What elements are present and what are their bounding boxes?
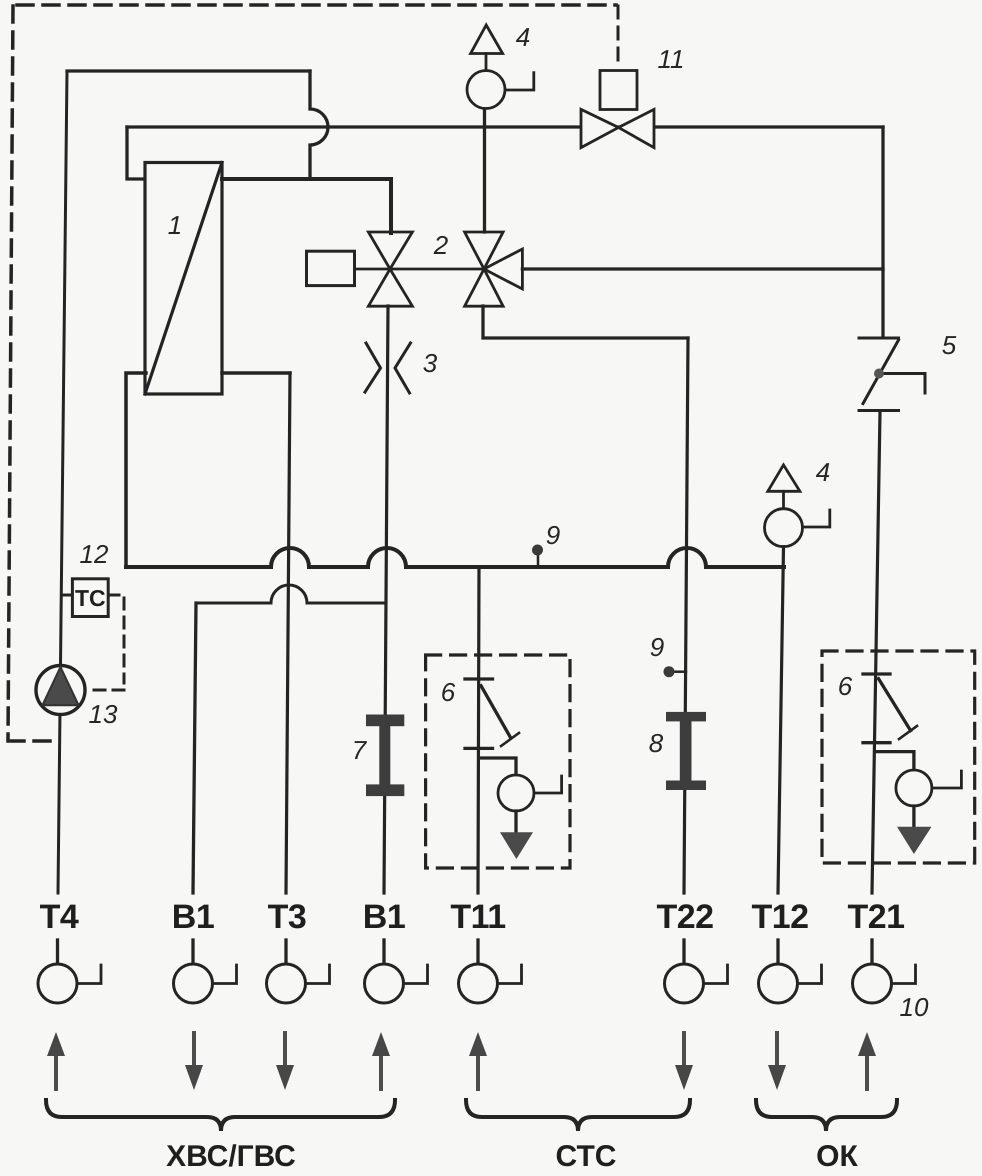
wire: T4 riser (left vertical) xyxy=(58,71,67,893)
wire: valve 2 bottom port to T22 xyxy=(483,306,688,338)
brace ОК xyxy=(756,1100,897,1131)
svg-text:Т4: Т4 xyxy=(40,898,79,936)
sampling valve unit 6 (right dashed box) xyxy=(822,651,975,863)
wire: actuator stem through valves y=269 xyxy=(355,268,485,271)
flow limiter 5 xyxy=(859,338,925,411)
wire: B1 downcomer xyxy=(193,603,196,893)
wire: valve 2 top port to gauge xyxy=(483,108,486,232)
safety valve 4 (top) xyxy=(467,25,534,109)
brace СТС xyxy=(466,1100,690,1131)
wire: T3 riser xyxy=(286,373,290,893)
svg-text:12: 12 xyxy=(80,539,109,569)
svg-text:9: 9 xyxy=(650,632,664,662)
wire: distribution manifold with crossover hops xyxy=(126,548,784,567)
svg-text:Т12: Т12 xyxy=(751,898,808,936)
svg-text:Т3: Т3 xyxy=(268,898,307,936)
flow arrow up (Т4) xyxy=(47,1032,65,1089)
connection point В1 xyxy=(172,898,237,1003)
svg-text:2: 2 xyxy=(433,230,449,260)
wire: cold water link y=603 with crossover hop xyxy=(196,585,386,603)
svg-text:ОК: ОК xyxy=(816,1140,858,1173)
wire: drop from header with crossover hop xyxy=(310,71,328,179)
wire: T22 downcomer xyxy=(684,338,688,893)
heat exchanger 1 xyxy=(145,163,222,395)
flow arrow down (В1) xyxy=(185,1033,203,1090)
svg-text:3: 3 xyxy=(423,348,438,378)
flow arrow up (Т11) xyxy=(469,1032,487,1089)
wire: header corner down to HX top-left port xyxy=(127,127,146,179)
wire: B1 riser through valve branch xyxy=(384,306,388,893)
svg-text:7: 7 xyxy=(352,735,368,765)
svg-text:ХВС/ГВС: ХВС/ГВС xyxy=(166,1140,296,1173)
svg-text:9: 9 xyxy=(546,520,560,550)
svg-text:Т22: Т22 xyxy=(656,898,713,936)
control valve (bowtie) xyxy=(368,232,412,306)
svg-text:13: 13 xyxy=(89,699,118,729)
connection point Т11 xyxy=(450,898,521,1003)
valve actuator box xyxy=(307,251,355,285)
orifice flange 8 xyxy=(666,712,706,790)
flow arrow down (Т22) xyxy=(675,1033,693,1090)
connection point Т12 xyxy=(751,898,821,1003)
dashed control line to valve 11 xyxy=(617,6,620,68)
connection point Т3 xyxy=(267,898,330,1003)
sensor tap 9 on T22 xyxy=(664,666,687,677)
svg-text:6: 6 xyxy=(838,671,853,701)
wire: T11 downcomer xyxy=(478,567,479,893)
wire: HX top-right port to control valve (y=179) xyxy=(222,179,391,233)
flow arrow down (Т12) xyxy=(768,1033,786,1090)
wire: top return header y=70 xyxy=(67,69,310,72)
connection point Т21 xyxy=(847,898,915,1003)
svg-text:Т21: Т21 xyxy=(847,898,904,936)
wire: right header drop xyxy=(881,127,884,337)
flow arrow up (В1 second) xyxy=(372,1032,390,1089)
svg-text:8: 8 xyxy=(649,728,664,758)
svg-text:4: 4 xyxy=(516,22,530,52)
connection point Т22 xyxy=(656,898,727,1003)
sampling valve unit 6 (left dashed box) xyxy=(426,655,570,868)
svg-text:ТС: ТС xyxy=(75,585,106,611)
svg-text:11: 11 xyxy=(658,44,685,74)
connection point В1 (second) xyxy=(363,898,428,1003)
brace ХВС/ГВС xyxy=(46,1100,395,1131)
flow arrow up (Т21) xyxy=(858,1032,876,1089)
svg-text:В1: В1 xyxy=(363,898,405,936)
wire: supply header y=127 xyxy=(127,125,883,128)
check valve 3 xyxy=(365,343,411,393)
svg-text:5: 5 xyxy=(942,330,957,360)
pump 13 xyxy=(36,666,85,715)
wire: T12 downcomer xyxy=(778,547,784,893)
sensor tap 9 on manifold xyxy=(532,545,543,567)
wire: T21 downcomer xyxy=(872,412,880,893)
wire: HX bottom-left port to manifold xyxy=(126,373,146,566)
svg-text:6: 6 xyxy=(441,677,456,707)
connection point Т4 xyxy=(38,898,101,1003)
svg-text:СТС: СТС xyxy=(556,1140,617,1173)
temperature controller TC 12 xyxy=(62,579,124,690)
wire: bypass line to three-way valve xyxy=(522,267,883,270)
solenoid valve 11 xyxy=(581,71,654,148)
wire: HX bottom-right port to T3 riser xyxy=(222,371,290,375)
svg-text:10: 10 xyxy=(900,992,929,1022)
three-way valve 2 xyxy=(465,232,523,306)
svg-text:В1: В1 xyxy=(172,898,214,936)
svg-text:4: 4 xyxy=(816,457,830,487)
flow arrow down (Т3) xyxy=(276,1033,294,1090)
safety valve 4 on T12 xyxy=(765,465,830,547)
dashed enclosure border xyxy=(8,5,616,741)
svg-text:1: 1 xyxy=(168,210,182,240)
svg-text:Т11: Т11 xyxy=(450,898,505,936)
orifice flange 7 xyxy=(366,715,404,797)
